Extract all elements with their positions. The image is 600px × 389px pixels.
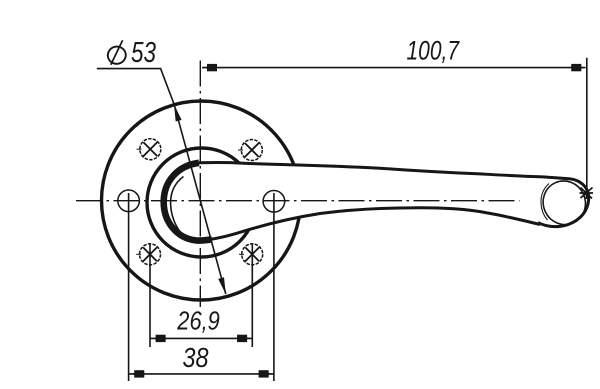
tip contact cross mark xyxy=(580,187,594,200)
lever top edge xyxy=(199,163,543,177)
svg-text:100,7: 100,7 xyxy=(407,36,460,66)
dimension diameter 53: text shelf and leader xyxy=(97,69,174,104)
rosette outer circle xyxy=(102,101,301,300)
lever tip highlight arc xyxy=(541,184,549,221)
dimension 100,7: line xyxy=(202,67,586,69)
dimension 26,9: left arrow xyxy=(151,336,166,342)
lever tip outline xyxy=(538,177,589,227)
screw bottom-left xyxy=(136,244,160,265)
lever body white fill xyxy=(166,163,589,241)
vertical centerline xyxy=(199,61,201,308)
screw top-left xyxy=(137,139,161,160)
svg-text:53: 53 xyxy=(131,37,156,69)
dimension 100,7: right extension line xyxy=(586,58,588,193)
lever tip end-face inner arc xyxy=(536,174,592,231)
dimension diameter 53: top arrow xyxy=(174,104,182,121)
dimension 26,9: left extension line xyxy=(149,243,151,347)
dimension diameter 53: diameter line across circle xyxy=(174,104,226,294)
dimension 26,9: right extension line xyxy=(251,243,253,347)
dimension 38: line xyxy=(129,373,274,375)
dimension 100,7: right arrow xyxy=(571,65,586,71)
dimension 38: left extension line xyxy=(128,193,130,381)
lever bottom edge xyxy=(197,208,540,241)
left hole xyxy=(118,190,140,212)
dimension 38: right extension line xyxy=(273,193,275,381)
dimension 26,9: line xyxy=(150,337,252,339)
right hole xyxy=(263,191,285,213)
dimension 100,7: left arrow xyxy=(202,65,217,71)
dimension diameter 53: bottom arrow xyxy=(218,277,226,294)
collar ring circle xyxy=(147,148,256,257)
screw bottom-right xyxy=(239,244,263,265)
svg-text:26,9: 26,9 xyxy=(176,308,219,336)
dimension 38: right arrow xyxy=(259,371,274,377)
bell neck thick arc xyxy=(164,163,212,241)
bell inner highlight arc xyxy=(171,177,190,242)
diameter symbol xyxy=(106,40,127,65)
screw top-right xyxy=(238,140,262,161)
dimension 38: left arrow xyxy=(129,371,144,377)
svg-text:38: 38 xyxy=(183,342,210,373)
horizontal centerline xyxy=(76,200,520,202)
dimension 26,9: right arrow xyxy=(237,336,252,342)
